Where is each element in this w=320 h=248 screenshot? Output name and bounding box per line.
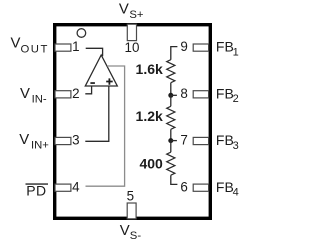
svg-text:4: 4 (233, 187, 239, 199)
pin 10 box (127, 24, 136, 40)
pin 4 box (55, 184, 71, 191)
svg-text:400: 400 (139, 155, 163, 171)
pin 5 box (127, 203, 136, 219)
svg-text:1: 1 (72, 39, 79, 54)
svg-text:V: V (119, 1, 129, 17)
svg-text:3: 3 (233, 140, 239, 152)
op-amp inverting input minus sign (90, 82, 95, 84)
svg-text:S+: S+ (129, 9, 144, 21)
wire pin4 PD to op-amp (86, 66, 125, 186)
tick node8 to pin8 (171, 94, 177, 96)
svg-text:3: 3 (72, 133, 79, 148)
svg-text:7: 7 (180, 133, 187, 148)
svg-text:FB: FB (216, 85, 234, 101)
svg-text:IN-: IN- (32, 93, 47, 105)
svg-text:9: 9 (180, 39, 187, 54)
svg-text:8: 8 (180, 86, 187, 101)
svg-text:OUT: OUT (21, 43, 49, 55)
wire R3 to pin6 (171, 175, 178, 184)
svg-text:IN+: IN+ (31, 139, 49, 151)
pin 2 box (55, 91, 71, 98)
svg-text:PD: PD (26, 183, 46, 199)
wire R2 to node7 (170, 129, 172, 140)
svg-text:2: 2 (233, 93, 239, 105)
svg-text:1.6k: 1.6k (136, 61, 163, 77)
svg-text:5: 5 (127, 189, 134, 204)
svg-text:FB: FB (216, 132, 234, 148)
wire R1 to node8 (170, 83, 172, 96)
svg-text:6: 6 (180, 179, 187, 194)
junction node 8 (168, 93, 173, 98)
op-amp non-inverting input plus sign (106, 78, 113, 84)
svg-text:S-: S- (130, 230, 142, 242)
wire node7 to R3 (170, 141, 172, 153)
pin 1 box (55, 44, 71, 51)
svg-text:1.2k: 1.2k (136, 108, 163, 124)
resistor R2 1.2k (167, 106, 175, 129)
pin 6 box (193, 184, 208, 191)
svg-text:V: V (11, 35, 21, 51)
svg-text:V: V (19, 132, 29, 148)
pin 9 box (193, 44, 208, 51)
junction node 7 (168, 138, 173, 143)
pin 8 box (193, 91, 208, 98)
op-amp A1 (85, 55, 117, 86)
tick node7 to pin7 (171, 140, 177, 142)
wire pin1 to op-amp output (86, 48, 103, 56)
pin 7 box (193, 137, 208, 144)
svg-text:4: 4 (72, 179, 80, 194)
wire pin3 to non-inverting input (85, 86, 109, 141)
svg-text:10: 10 (125, 40, 140, 55)
svg-text:2: 2 (72, 86, 79, 101)
resistor R1 1.6k (167, 60, 175, 83)
svg-text:1: 1 (233, 47, 239, 59)
svg-text:FB: FB (216, 39, 234, 55)
pin 3 box (55, 137, 71, 144)
pin 1 indicator circle (77, 29, 86, 38)
resistor R3 400 (167, 152, 175, 175)
svg-text:V: V (20, 86, 30, 102)
net label PD overline (26, 183, 49, 184)
svg-text:FB: FB (216, 179, 234, 195)
wire pin2 to inverting input (85, 86, 91, 94)
svg-text:V: V (120, 223, 130, 239)
wire pin9 to ladder top (171, 47, 178, 60)
package outline (55, 25, 211, 219)
wire node8 to R2 (170, 95, 172, 106)
